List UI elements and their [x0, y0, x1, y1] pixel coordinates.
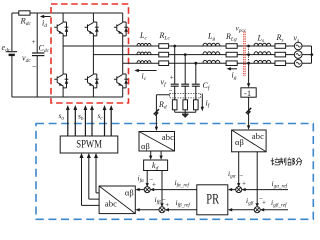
- svg-text:+: +: [170, 74, 174, 82]
- wire i_f sense into control: [156, 95, 169, 129]
- wire ab block out2: [87, 153, 99, 199]
- inductor L_c phase B: [137, 52, 151, 55]
- transistor Q2: [54, 74, 68, 88]
- gate wire sb1: [84, 105, 88, 136]
- gate wire sb2: [90, 105, 94, 136]
- wire filter branch C: [195, 63, 197, 98]
- resistor R_dc: [19, 11, 30, 15]
- svg-text:abc: abc: [252, 131, 264, 141]
- wire: source left leg: [11, 13, 13, 97]
- wire: C_dc branch: [36, 13, 38, 97]
- svg-text:PR: PR: [206, 191, 219, 207]
- transistor Q1: [54, 22, 68, 36]
- gate wire sa1: [66, 105, 70, 136]
- wire i_g sense dashed: [248, 46, 250, 63]
- alphabeta to abc block: [99, 186, 135, 214]
- bridge leg C wire: [122, 13, 124, 97]
- current arrow i_g: [227, 67, 238, 70]
- svg-text:−: −: [239, 171, 243, 179]
- label control section (zhi): [279, 158, 286, 166]
- v_pcc red dotted line: [244, 32, 246, 77]
- wire abc block to kd left: [149, 151, 152, 160]
- gate wire sc2: [109, 105, 113, 136]
- capacitor C_f phase C: [192, 84, 200, 86]
- signal break slash left: [154, 109, 159, 115]
- node dot i_g tap C: [247, 62, 250, 65]
- inductor L_c phase C: [137, 61, 151, 64]
- wire phase A: [63, 45, 295, 47]
- summing junction 2: [159, 207, 165, 213]
- transistor Q5: [114, 22, 128, 36]
- gain block -1: [241, 88, 256, 97]
- svg-text:abc: abc: [162, 132, 174, 142]
- gate wire sa2: [73, 105, 77, 136]
- wire phase B: [93, 54, 295, 56]
- wire: DC top rail: [12, 12, 123, 14]
- wire kd to sum1: [146, 171, 149, 188]
- label control section (kong): [271, 158, 280, 166]
- current arrow i_f: [201, 94, 204, 112]
- signal break slash right: [246, 108, 251, 114]
- ground: [182, 112, 189, 118]
- inductor L_s phase B: [254, 52, 271, 55]
- svg-text:SPWM: SPWM: [76, 137, 102, 151]
- wire sum4 to PR: [228, 208, 255, 211]
- wire abc to sum3: [237, 152, 240, 187]
- summing junction 3: [236, 187, 242, 193]
- capacitor C_f phase A: [171, 84, 179, 86]
- svg-text:αβ: αβ: [141, 141, 150, 151]
- inductor L_s phase A: [254, 43, 271, 46]
- battery e_dc: [6, 52, 17, 55]
- wire sum1 to ab block: [135, 188, 144, 191]
- source v_s phase C: [294, 59, 302, 67]
- capacitor C_f phase B: [181, 84, 189, 86]
- wire PR to sum2 row2: [165, 208, 197, 211]
- bridge leg B wire: [92, 13, 94, 97]
- abc to alphabeta block (grid current): [232, 130, 267, 152]
- wire ab block out1: [94, 153, 99, 193]
- resistor R_Lc phase A: [159, 44, 169, 49]
- node dot i_g tap A: [247, 45, 250, 48]
- wire: DC bottom rail: [12, 96, 123, 98]
- wire i_gb_ref row: [260, 208, 288, 211]
- wire abc block to kd right: [159, 151, 162, 160]
- inductor L_s phase C: [254, 60, 271, 63]
- resistor R_s phase B: [275, 52, 286, 57]
- inductor L_g phase B: [203, 52, 220, 55]
- wire PR to sum1 row1: [150, 188, 197, 191]
- svg-text:αβ: αβ: [235, 137, 244, 147]
- node dot grid bus: [310, 53, 313, 56]
- resistor R_d phase C: [194, 100, 199, 110]
- gain block k_d: [144, 160, 168, 171]
- resistor R_Lc phase C: [159, 61, 169, 66]
- resistor R_s phase A: [275, 44, 286, 49]
- node dot phase C filter tap: [194, 62, 197, 65]
- arrow into right abc block: [247, 125, 250, 129]
- resistor R_s phase C: [275, 61, 286, 66]
- svg-text:+: +: [152, 181, 156, 189]
- wire abc to sum4: [256, 152, 259, 207]
- resistor R_Lg phase A: [226, 44, 237, 49]
- node dot phase B filter tap: [184, 53, 187, 56]
- control blue dashed box: [36, 124, 313, 220]
- resistor R_Lc phase B: [159, 52, 169, 57]
- sense dotted box: [170, 94, 201, 98]
- arrow into left abc block: [155, 127, 158, 131]
- inverter red dashed box: [51, 4, 129, 103]
- resistor R_d phase A: [172, 100, 177, 110]
- wire -1 to abc block: [248, 97, 250, 127]
- wire ab block out3: [80, 153, 100, 205]
- resistor R_Lg phase B: [226, 52, 237, 57]
- current arrow i_c: [134, 69, 156, 72]
- abc to alphabeta block (capacitor current): [139, 132, 175, 152]
- svg-text:-1: -1: [244, 88, 251, 98]
- svg-text:+: +: [165, 201, 169, 209]
- wire filter branch A: [174, 46, 176, 98]
- svg-text:−: −: [32, 63, 37, 72]
- transistor Q4: [85, 74, 99, 88]
- inductor L_g phase A: [203, 43, 220, 46]
- svg-text:+: +: [32, 38, 36, 46]
- wire phase C: [123, 62, 295, 64]
- inductor L_g phase C: [203, 60, 220, 63]
- wire i_ga_ref row: [241, 188, 288, 191]
- wire filter branch B: [184, 55, 186, 98]
- summing junction 1: [144, 187, 150, 193]
- svg-text:abc: abc: [105, 199, 117, 209]
- svg-text:+: +: [242, 179, 246, 187]
- source v_s phase A: [294, 42, 302, 50]
- source v_s phase B: [294, 51, 302, 59]
- transistor Q3: [85, 22, 99, 36]
- SPWM block: [60, 136, 118, 153]
- resistor R_Lg phase C: [226, 61, 237, 66]
- label control section (bu): [288, 158, 295, 166]
- bridge leg A wire: [62, 13, 64, 97]
- capacitor C_dc: [32, 53, 44, 56]
- svg-text:+: +: [262, 199, 266, 207]
- resistor R_d phase B: [183, 100, 188, 110]
- label control section (fen): [296, 158, 302, 166]
- wire sum3 to PR: [228, 188, 236, 191]
- summing junction 4: [254, 207, 260, 213]
- inductor L_c phase A: [137, 43, 151, 46]
- transistor Q6: [114, 74, 128, 88]
- current arrow i_d: [40, 15, 51, 18]
- gate wire sc1: [103, 105, 107, 136]
- wire sum2 to ab block: [135, 208, 159, 211]
- node dot phase A filter tap: [173, 45, 176, 48]
- svg-text:αβ: αβ: [125, 187, 134, 197]
- wire kd to sum2: [160, 171, 163, 208]
- wire grid right bus: [302, 46, 312, 63]
- node dot i_g tap B: [247, 53, 250, 56]
- wire R_d bottom bus: [175, 98, 196, 112]
- wire i_g sense to -1: [247, 63, 250, 87]
- PR controller block: [197, 185, 228, 215]
